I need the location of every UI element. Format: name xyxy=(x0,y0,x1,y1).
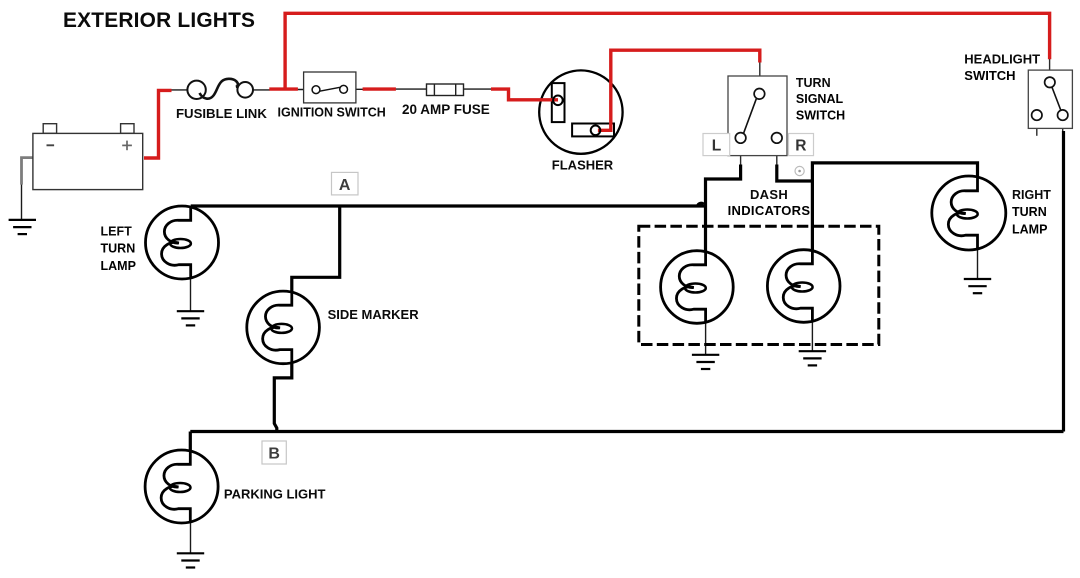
wire dash indicator left ground lead xyxy=(705,323,707,355)
left turn lamp xyxy=(146,206,219,279)
wire turn signal switch L lead xyxy=(740,143,742,166)
svg-text:TURN: TURN xyxy=(796,76,831,90)
wire battery ground lead xyxy=(21,184,23,220)
wire side marker to node B xyxy=(274,362,292,432)
wire junction to right dash indicator xyxy=(811,180,814,252)
wire red flasher to turn signal switch xyxy=(598,50,760,130)
wire turn signal switch R lead xyxy=(776,143,778,166)
ground (parking light) xyxy=(177,553,204,567)
wire node B to parking light xyxy=(189,432,192,452)
wire right turn lamp ground lead xyxy=(977,249,979,280)
wire L terminal to left dash indicator xyxy=(706,165,741,253)
svg-text:SIGNAL: SIGNAL xyxy=(796,92,844,106)
wire red top rail to headlight switch xyxy=(269,13,1049,91)
battery xyxy=(33,124,143,190)
node B box xyxy=(262,441,286,464)
wire red fuse to flasher xyxy=(491,89,558,100)
node R box xyxy=(789,134,814,156)
ground (right turn lamp) xyxy=(964,279,991,293)
wire node A line xyxy=(191,204,706,207)
wire battery negative (grey) xyxy=(22,158,33,185)
wire fusible link left lead xyxy=(171,89,188,91)
side marker lamp xyxy=(247,291,320,364)
battery plus sign xyxy=(122,141,132,151)
right turn lamp xyxy=(932,176,1006,250)
ignition switch xyxy=(304,72,356,103)
dash indicators enclosure xyxy=(639,226,879,344)
headlight switch xyxy=(1028,70,1072,128)
svg-text:LAMP: LAMP xyxy=(101,259,136,273)
flasher input terminal ring xyxy=(553,96,563,106)
wire turn signal switch top lead xyxy=(759,62,761,89)
svg-text:LEFT: LEFT xyxy=(101,224,133,238)
wire parking light ground lead xyxy=(190,522,192,553)
wire red battery to fusible link xyxy=(144,90,172,158)
svg-text:PARKING LIGHT: PARKING LIGHT xyxy=(224,486,326,501)
svg-text:HEADLIGHT: HEADLIGHT xyxy=(964,51,1040,66)
svg-text:FLASHER: FLASHER xyxy=(552,158,614,173)
wire fuse left lead xyxy=(395,88,427,90)
wire fuse right lead xyxy=(464,88,493,90)
svg-text:FUSIBLE LINK: FUSIBLE LINK xyxy=(176,106,267,121)
wire fusible link right lead xyxy=(253,89,271,91)
svg-text:TURN: TURN xyxy=(101,242,136,256)
ground (dash indicator left) xyxy=(692,355,719,369)
turn signal switch U1 xyxy=(728,76,787,156)
svg-text:LAMP: LAMP xyxy=(1012,223,1047,237)
svg-text:TURN: TURN xyxy=(1012,205,1047,219)
svg-text:20 AMP FUSE: 20 AMP FUSE xyxy=(402,102,490,117)
wire ignition switch right lead xyxy=(347,88,364,90)
wire headlight switch unused stub xyxy=(1036,120,1038,135)
wire node A to side marker xyxy=(292,206,340,292)
wire red ignition to fuse xyxy=(363,87,396,90)
wire headlight switch to node B xyxy=(1062,131,1065,432)
fuse 20 amp xyxy=(427,84,464,96)
svg-text:SWITCH: SWITCH xyxy=(796,108,845,122)
svg-text:SIDE MARKER: SIDE MARKER xyxy=(328,307,420,322)
svg-text:IGNITION SWITCH: IGNITION SWITCH xyxy=(278,106,386,120)
fusible link xyxy=(187,79,253,99)
ground (battery) xyxy=(9,220,36,234)
wire node A junction hop xyxy=(698,203,704,206)
dash indicator lamp left xyxy=(661,251,734,324)
svg-text:B: B xyxy=(268,446,280,463)
wire left turn lamp ground lead xyxy=(190,278,192,311)
wire node B line xyxy=(190,430,1063,433)
battery minus sign xyxy=(47,144,55,146)
wire headlight switch top lead xyxy=(1049,59,1051,78)
ground (left turn lamp) xyxy=(177,311,204,325)
ground (dash indicator right) xyxy=(799,351,826,365)
junction dot marker xyxy=(795,166,804,175)
node L box xyxy=(703,134,730,156)
flasher xyxy=(539,70,622,153)
parking light lamp xyxy=(145,450,218,523)
wire ignition switch left lead xyxy=(296,89,313,91)
wire headlight switch output lead xyxy=(1062,120,1064,131)
node A box xyxy=(332,172,359,195)
svg-text:EXTERIOR LIGHTS: EXTERIOR LIGHTS xyxy=(63,9,255,32)
svg-text:R: R xyxy=(795,138,806,155)
flasher output terminal ring xyxy=(591,126,601,136)
svg-text:SWITCH: SWITCH xyxy=(964,68,1015,83)
svg-text:INDICATORS: INDICATORS xyxy=(728,203,811,218)
wire dash indicator right ground lead xyxy=(811,322,813,352)
wire R terminal junction xyxy=(777,163,978,181)
dash indicator lamp right xyxy=(767,250,840,323)
svg-text:A: A xyxy=(339,177,351,194)
svg-text:RIGHT: RIGHT xyxy=(1012,188,1051,202)
svg-text:DASH: DASH xyxy=(750,187,788,202)
svg-text:L: L xyxy=(712,138,721,155)
